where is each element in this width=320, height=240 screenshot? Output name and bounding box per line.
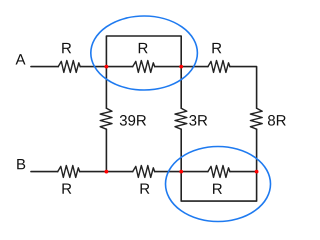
node B label (17, 159, 25, 169)
resistor R (bottom right, shorted) (208, 166, 230, 178)
value label R (bottom middle) (141, 183, 150, 193)
value label 3R (189, 115, 207, 126)
value label 8R (268, 115, 286, 126)
wire bottom-left junction to resistor (106, 171, 132, 173)
junction dot bottom-mid (179, 170, 183, 174)
wire leads of bottom-right resistor (181, 171, 256, 173)
resistor R (series from B) (58, 166, 80, 178)
resistor 39R (vertical left) (100, 108, 112, 129)
wire resistor to bottom-left junction (80, 171, 107, 173)
resistor R (top right) (208, 60, 230, 72)
junction dot bottom-left (105, 170, 109, 174)
wire A to resistor (31, 66, 58, 68)
junction dot top-right (179, 65, 183, 69)
junction dot bottom-right (255, 170, 259, 174)
resistor 3R (vertical middle) (175, 108, 187, 129)
value label 39R (120, 115, 146, 126)
highlight ellipse around shorted bottom resistor (166, 147, 271, 222)
resistor R (top middle, shorted) (133, 60, 155, 72)
wire 8R to bottom-right junction (256, 129, 258, 171)
wire B to resistor (31, 171, 58, 173)
shorting wire loop over top-middle resistor (106, 36, 181, 67)
wire resistor to top-left junction (80, 66, 106, 68)
value label R (series from B) (62, 183, 71, 193)
value label R (bottom right) (213, 184, 222, 194)
value label R (series from A) (62, 43, 71, 53)
resistor 8R (vertical right) (250, 108, 262, 129)
wire segments of left vertical branch (105, 67, 107, 172)
wire top-right junction to resistor (181, 66, 208, 68)
value label R (top right) (212, 43, 221, 53)
value label R (top middle) (139, 43, 148, 53)
resistor R (series from A) (58, 60, 80, 72)
wire resistor to bottom-mid junction (155, 171, 182, 173)
wire leads of top-middle resistor (106, 66, 181, 68)
wire segments of middle vertical branch (180, 67, 182, 172)
node A label (16, 54, 26, 64)
junction dot top-left (105, 65, 109, 69)
resistor R (bottom middle) (133, 166, 155, 178)
highlight ellipse around shorted top resistor (91, 16, 198, 90)
shorting wire loop under bottom-right resistor (181, 172, 256, 202)
wire to top-right corner and down (230, 67, 257, 109)
